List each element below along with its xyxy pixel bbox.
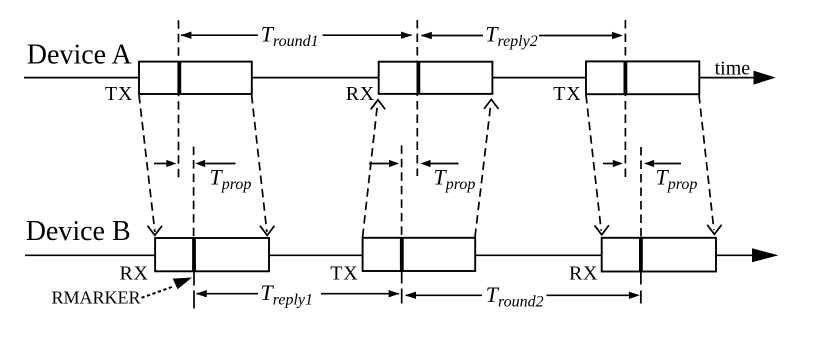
- T_reply2 dimension arrow: [421, 32, 623, 39]
- svg-text:Tprop: Tprop: [656, 164, 698, 193]
- T_reply1 dimension arrow: [196, 290, 400, 297]
- dashed vertical V2 (B1 marker extension): [193, 147, 195, 238]
- propagation dashed line A1->B1 right: [252, 95, 267, 232]
- propagation dashed line B2->A2 right: [475, 104, 491, 237]
- box A1 (TX pulse on device A): [139, 62, 252, 94]
- RMARKER pointer dotted line: [142, 286, 175, 298]
- RMARKER bar in A2: [416, 62, 420, 94]
- RMARKER bar in B3: [639, 238, 643, 272]
- svg-text:Treply2: Treply2: [485, 22, 538, 51]
- device B timeline: [25, 254, 755, 256]
- box B2 (TX pulse on device B): [363, 238, 476, 271]
- propagation dashed line A1->B1 left: [139, 95, 155, 232]
- box B3 (RX pulse on device B): [602, 238, 716, 272]
- propagation dashed line A3->B3 left: [586, 95, 601, 231]
- dashed vertical V3 (A2 marker extension): [416, 20, 418, 176]
- svg-text:TX: TX: [105, 83, 133, 105]
- T_round2 dimension arrow: [405, 292, 640, 299]
- B3 marker line below box: [640, 272, 642, 304]
- Tprop arrows group 2: [369, 160, 459, 167]
- box B1 (RX pulse on device B): [155, 238, 269, 271]
- svg-text:RX: RX: [120, 262, 149, 284]
- svg-text:Device B: Device B: [26, 216, 131, 247]
- propagation dashed line B2->A2 left: [363, 104, 378, 237]
- device A timeline: [24, 77, 757, 79]
- B1 marker line below box: [193, 271, 195, 308]
- dashed vertical V5 (A3 marker extension): [624, 20, 626, 178]
- RMARKER bar in A3: [624, 61, 628, 94]
- dashed vertical V6 (B3 marker extension): [640, 147, 642, 238]
- svg-text:Tprop: Tprop: [210, 164, 252, 193]
- svg-text:RX: RX: [569, 263, 598, 285]
- RMARKER bar in B1: [192, 238, 196, 271]
- Tprop arrows group 1: [154, 160, 236, 167]
- box A2 (RX pulse on device A): [379, 62, 493, 94]
- B2 marker line below box: [401, 271, 403, 304]
- svg-text:Tprop: Tprop: [434, 164, 476, 193]
- svg-text:RMARKER: RMARKER: [52, 288, 141, 308]
- device B time-axis arrowhead: [752, 248, 779, 262]
- svg-text:time: time: [715, 58, 751, 80]
- device A time-axis arrowhead: [754, 71, 776, 85]
- svg-text:Tround2: Tround2: [486, 282, 544, 311]
- svg-text:Treply1: Treply1: [261, 280, 314, 309]
- svg-text:RX: RX: [346, 83, 375, 105]
- RMARKER bar in B2: [400, 238, 404, 271]
- RMARKER pointer arrowhead: [173, 278, 192, 290]
- Tprop arrows group 3: [603, 160, 681, 167]
- svg-text:Device A: Device A: [27, 40, 133, 71]
- dashed vertical V4 (B2 marker extension): [401, 145, 403, 237]
- dashed vertical V1 (A1 marker extension): [178, 20, 180, 177]
- RMARKER bar in A1: [177, 62, 181, 94]
- svg-text:TX: TX: [553, 83, 581, 105]
- box A3 (TX pulse on device A): [586, 61, 699, 94]
- T_round1 dimension arrow: [180, 32, 412, 39]
- svg-text:TX: TX: [330, 262, 358, 284]
- propagation dashed line A3->B3 right: [699, 95, 714, 230]
- svg-text:Tround1: Tround1: [261, 21, 319, 50]
